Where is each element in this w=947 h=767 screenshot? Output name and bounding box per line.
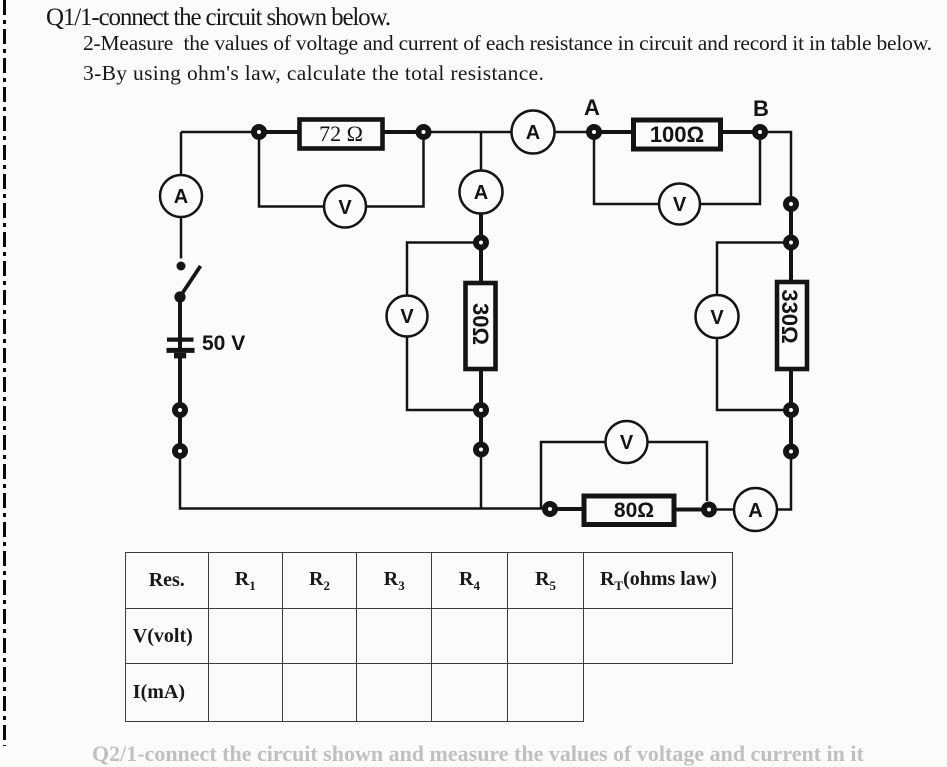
table V(volt) row [125, 609, 733, 664]
wire resistor R5 to plug dot [789, 369, 793, 404]
svg-text:V: V [400, 306, 414, 328]
wire ammeter A3 to plug dot [479, 214, 483, 238]
table header row [125, 553, 733, 722]
junction dot right of 80 ohm [704, 505, 714, 515]
wire right rail down to ammeter A4 [777, 458, 791, 510]
svg-text:100Ω: 100Ω [650, 122, 704, 147]
junction dot right of 72 ohm [419, 127, 429, 137]
resistor R2 30 ohm [466, 283, 496, 369]
node A junction dot [589, 127, 599, 137]
voltmeter V5 loop right [648, 442, 708, 501]
battery BT1 value label 50 V [202, 332, 245, 355]
wire left bottom corner [180, 458, 549, 509]
middle plug dot [476, 238, 486, 248]
svg-text:V: V [673, 194, 687, 216]
ammeter A4 (bottom right) [734, 488, 777, 531]
svg-text:A: A [748, 500, 762, 522]
voltmeter V3 loop top [407, 243, 474, 296]
switch S1 lever [181, 266, 201, 296]
cut-off next question text at page bottom [92, 741, 864, 767]
wire top-left horizontal [181, 131, 253, 134]
ammeter A2 (top wire) [512, 111, 555, 154]
wire junction to ammeter A2 [430, 131, 512, 134]
junction dot left of 72 ohm [254, 127, 264, 137]
resistor R4 100 ohm [634, 120, 721, 149]
battery BT1 plate negative [167, 348, 195, 353]
switch S1 open contact dot [177, 262, 186, 271]
torn page dash-dot left border [3, 0, 6, 746]
svg-text:30Ω: 30Ω [468, 303, 493, 345]
wire stub node A to resistor R4 [600, 130, 632, 134]
wire resistor R2 to plug dot [479, 369, 483, 404]
wire battery to node [178, 353, 182, 403]
wire resistor R1 to junction [384, 130, 417, 134]
lower right plug dot upper [786, 405, 796, 415]
svg-text:A: A [174, 186, 188, 208]
voltmeter V4 (across 330 ohm) [696, 295, 739, 338]
voltmeter V2 loop right [700, 139, 760, 204]
svg-text:72 Ω: 72 Ω [319, 121, 363, 146]
switch S1 pivot contact dot [174, 291, 185, 302]
svg-text:V: V [620, 432, 634, 454]
wire stub to resistor R3 80 ohm [556, 507, 583, 511]
right rail plug dot lower [786, 238, 796, 248]
middle lower plug dot lower [476, 445, 486, 455]
voltmeter V2 loop left [594, 139, 659, 204]
voltmeter V3 loop bottom [407, 337, 474, 411]
svg-text:50 V: 50 V [202, 332, 245, 355]
lower right plug dot lower [786, 447, 796, 457]
voltmeter V2 (across 100 ohm) [659, 184, 700, 225]
question text line 2 [83, 33, 932, 55]
right rail plug dot upper [786, 199, 796, 209]
wire between left plug dots [178, 415, 182, 446]
wire junction to ammeter A4 [716, 508, 734, 511]
wire node B to right rail [767, 132, 791, 197]
junction plug dot (left lower) [175, 446, 185, 456]
resistor R1 72 ohm [300, 120, 383, 149]
node B label [753, 96, 769, 121]
resistor R5 330 ohm [777, 282, 807, 369]
wire stub to resistor R1 [265, 130, 298, 134]
ammeter A3 (middle branch) [460, 171, 503, 214]
wire middle branch to bottom rail [480, 456, 483, 509]
voltmeter V1 (across 72 ohm) [324, 186, 366, 228]
voltmeter V1 loop right [366, 139, 424, 207]
svg-text:B: B [753, 96, 769, 121]
voltmeter V4 loop bottom [717, 338, 784, 410]
node B junction dot [755, 127, 765, 137]
svg-text:A: A [526, 122, 540, 144]
table I(mA) row [125, 664, 733, 722]
question text line 1 [46, 5, 390, 30]
wire resistor R3 to junction [675, 508, 703, 512]
battery BT1 plate positive [167, 338, 194, 342]
svg-text:A: A [474, 182, 488, 204]
wire stub to resistor R2 30 ohm [479, 248, 483, 282]
wire switch to battery [178, 297, 182, 350]
svg-text:A: A [584, 95, 600, 120]
svg-text:V: V [338, 197, 352, 219]
wire between middle plug dots [479, 416, 483, 444]
wire resistor R4 to node B [722, 130, 754, 134]
voltmeter V5 (across 80 ohm) [606, 421, 648, 463]
wire left vertical to ammeter [180, 132, 183, 175]
svg-text:330Ω: 330Ω [777, 289, 802, 343]
wire between right rail plug dots [789, 210, 793, 237]
junction plug dot (left upper) [175, 405, 185, 415]
voltmeter V4 loop top [717, 243, 784, 296]
voltmeter V1 loop left [259, 139, 324, 207]
resistor R3 80 ohm [584, 496, 674, 525]
ammeter A1 (left branch) [160, 175, 202, 217]
wire between lower right plug dots [789, 416, 793, 446]
svg-text:V: V [710, 307, 724, 329]
junction dot left of 80 ohm [545, 504, 555, 514]
question text line 3 [83, 63, 544, 85]
node A label [584, 95, 600, 120]
voltmeter V3 (across 30 ohm) [387, 296, 428, 337]
middle lower plug dot upper [476, 405, 486, 415]
wire ammeter A2 to node A [555, 131, 588, 134]
wire ammeter A1 to switch [180, 217, 183, 259]
wire stub to resistor R5 330 ohm [789, 248, 793, 281]
results table [125, 552, 734, 722]
voltmeter V5 loop left [541, 442, 606, 509]
svg-text:80Ω: 80Ω [614, 499, 654, 522]
wire top tee down to ammeter A3 [480, 132, 483, 171]
battery BT1 terminal wedge [174, 353, 186, 359]
